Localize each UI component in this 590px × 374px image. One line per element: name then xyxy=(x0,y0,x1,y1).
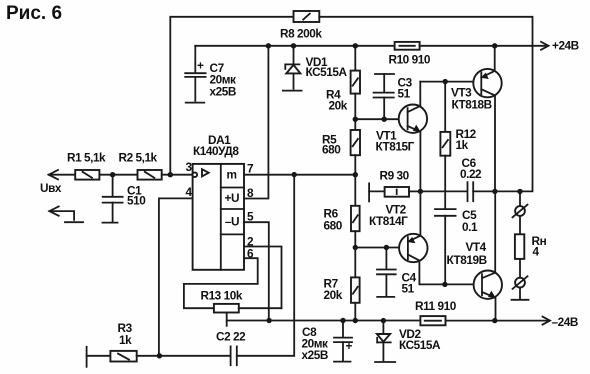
pin 4 xyxy=(159,185,193,356)
svg-text:КТ819В: КТ819В xyxy=(447,253,487,267)
pin 3 xyxy=(186,160,198,177)
wire VT1 collector to VT3 base xyxy=(420,81,481,83)
svg-text:510: 510 xyxy=(127,194,146,208)
ground VD2 xyxy=(375,361,395,363)
svg-text:R11 910: R11 910 xyxy=(415,299,457,313)
node R2-pin3-feedback xyxy=(168,172,173,177)
wire rail to -24V arrow xyxy=(446,320,550,322)
svg-text:КС515А: КС515А xyxy=(399,338,441,352)
svg-text:–24В: –24В xyxy=(552,315,578,329)
ground C4 xyxy=(377,296,394,298)
transistor VT2 xyxy=(369,191,482,284)
svg-text:КТ815Г: КТ815Г xyxy=(376,140,415,154)
pin 8 xyxy=(244,46,268,200)
svg-text:0.1: 0.1 xyxy=(462,220,478,234)
capacitor C3 xyxy=(374,74,413,119)
capacitor C1 xyxy=(103,175,147,222)
wire VT1 base line xyxy=(355,118,407,120)
node rail VT4 emitter xyxy=(492,318,497,323)
svg-text:C2 22: C2 22 xyxy=(216,330,246,344)
bottom rail xyxy=(227,320,421,322)
ground input xyxy=(65,221,83,223)
zener VD1 xyxy=(285,46,347,89)
node pin7 output to R5/R6 xyxy=(353,172,358,177)
node R6-R7-base xyxy=(353,245,358,250)
ground VD1 xyxy=(283,90,302,92)
capacitor C4 xyxy=(377,248,417,296)
pin 7 xyxy=(244,162,355,176)
-24V arrow xyxy=(543,317,551,325)
wire R3 to C2 xyxy=(137,355,230,357)
svg-text:680: 680 xyxy=(322,143,341,157)
ground C8 xyxy=(334,361,351,363)
node C3-base xyxy=(382,117,387,122)
wire xyxy=(519,259,521,278)
pin 6 xyxy=(184,247,258,309)
ground C7 xyxy=(186,102,205,104)
transistor VT3 xyxy=(451,46,502,192)
svg-text:1k: 1k xyxy=(456,138,469,152)
wire xyxy=(162,174,193,176)
svg-text:VT4: VT4 xyxy=(466,240,487,254)
svg-text:m: m xyxy=(227,168,237,182)
transistor VT1 xyxy=(376,82,428,192)
svg-text:7: 7 xyxy=(247,162,254,176)
resistor Rн xyxy=(515,234,547,259)
wire output line xyxy=(420,190,467,192)
node load takeoff xyxy=(517,189,522,194)
input terminal Uвх xyxy=(40,170,75,195)
resistor R1 xyxy=(67,151,106,180)
resistor R11 xyxy=(415,299,457,325)
svg-text:R10 910: R10 910 xyxy=(389,53,431,67)
resistor R8 xyxy=(280,11,322,41)
svg-text:1k: 1k xyxy=(119,333,132,347)
svg-text:+: + xyxy=(346,339,353,353)
svg-text:R8 200k: R8 200k xyxy=(280,27,322,41)
wire VT2 base line xyxy=(355,247,408,249)
svg-text:20k: 20k xyxy=(324,288,343,302)
capacitor C7 xyxy=(185,46,236,101)
node rail R4 xyxy=(353,43,358,48)
resistor R4 xyxy=(326,46,360,119)
wire xyxy=(99,174,137,176)
wire output to load takeoff xyxy=(495,190,520,192)
resistor R6 xyxy=(324,175,360,248)
resistor R7 xyxy=(324,248,360,321)
wire +supply rail xyxy=(195,45,394,47)
zener VD2 xyxy=(377,321,441,361)
svg-text:КТ814Г: КТ814Г xyxy=(369,214,408,228)
resistor R5 xyxy=(322,119,360,175)
svg-text:+: + xyxy=(197,59,204,73)
wire top line to output column xyxy=(319,17,532,192)
svg-text:R2 5,1k: R2 5,1k xyxy=(119,151,158,165)
svg-text:4: 4 xyxy=(186,185,193,199)
connector X2 xyxy=(513,276,528,289)
connector X1 xyxy=(513,205,528,218)
svg-text:680: 680 xyxy=(324,219,343,233)
node pin7 output to C2 xyxy=(292,172,297,177)
capacitor C5 xyxy=(435,208,478,284)
svg-text:51: 51 xyxy=(402,282,415,296)
node R1-R2-C1 xyxy=(110,172,115,177)
node rail pin5 xyxy=(266,318,271,323)
common arrow at input xyxy=(49,206,74,219)
node VT3 base / R12 xyxy=(443,79,448,84)
node R4-R5-base xyxy=(353,117,358,122)
node emitters R9 xyxy=(418,189,423,194)
node rail pin8 xyxy=(266,43,271,48)
svg-text:К140УД8: К140УД8 xyxy=(193,144,239,158)
capacitor C8 xyxy=(302,321,353,363)
svg-text:+24В: +24В xyxy=(552,39,579,53)
ground load xyxy=(512,299,529,301)
svg-text:КТ818В: КТ818В xyxy=(452,98,492,112)
svg-text:4: 4 xyxy=(533,245,540,259)
svg-text:Uвх: Uвх xyxy=(40,181,62,195)
wire feedback left vertical and top line xyxy=(170,17,293,175)
node output VT3/VT4 xyxy=(492,189,497,194)
resistor R2 xyxy=(119,151,162,180)
resistor R10 xyxy=(389,42,431,67)
wire xyxy=(519,288,521,299)
capacitor C6 xyxy=(460,156,495,201)
svg-text:20k: 20k xyxy=(329,99,348,113)
wire rail to +24V arrow xyxy=(420,45,548,47)
svg-text:51: 51 xyxy=(398,87,411,101)
svg-text:0.22: 0.22 xyxy=(460,167,482,181)
node C4-base xyxy=(384,245,389,250)
node rail R7 xyxy=(353,318,358,323)
node R3-C2-pin4 xyxy=(157,353,162,358)
pin 5 xyxy=(244,210,269,321)
resistor R9 xyxy=(369,169,420,197)
node C5 to VT4 base xyxy=(442,282,447,287)
wire xyxy=(519,216,521,234)
node rail VD1 xyxy=(291,43,296,48)
svg-text:R1 5,1k: R1 5,1k xyxy=(67,151,106,165)
svg-text:+U: +U xyxy=(225,191,240,205)
resistor R3 xyxy=(87,321,137,367)
pin 2 xyxy=(244,235,282,309)
capacitor C2 xyxy=(216,175,294,366)
svg-text:3: 3 xyxy=(186,160,193,174)
svg-text:х25В: х25В xyxy=(302,348,328,362)
transistor VT4 xyxy=(447,191,502,320)
resistor R12 xyxy=(440,82,476,208)
resistor R13 xyxy=(201,289,282,326)
svg-text:х25В: х25В xyxy=(210,85,236,99)
node rail VT3 xyxy=(492,43,497,48)
svg-text:R13 10k: R13 10k xyxy=(201,289,243,303)
op-amp DA1 xyxy=(193,133,244,270)
svg-text:–U: –U xyxy=(225,215,239,229)
svg-text:Рис. 6: Рис. 6 xyxy=(6,3,62,24)
svg-text:R9 30: R9 30 xyxy=(380,169,410,183)
svg-text:КС515А: КС515А xyxy=(306,65,348,79)
ground C1 xyxy=(103,222,118,224)
node rail VD2 xyxy=(381,318,386,323)
wire load branch xyxy=(519,191,521,206)
node rail C8 xyxy=(340,318,345,323)
terminal bar R9 xyxy=(368,183,370,201)
+24V arrow xyxy=(541,42,549,50)
